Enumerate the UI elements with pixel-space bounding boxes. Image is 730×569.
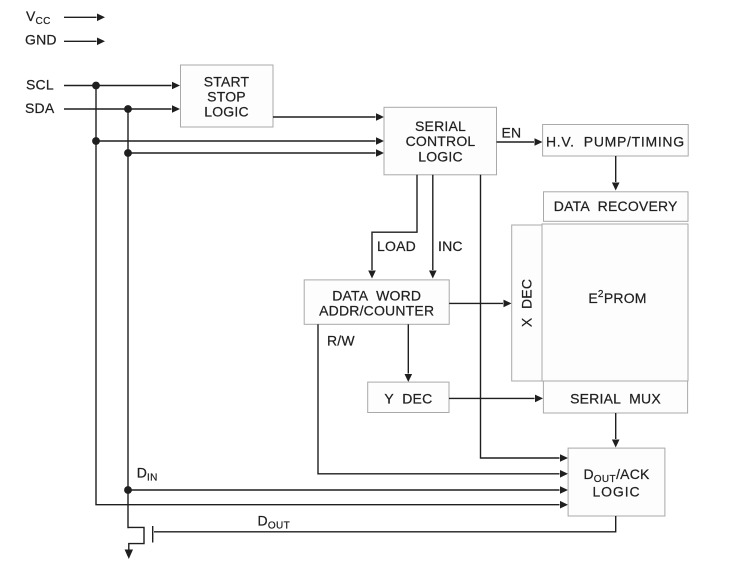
- svg-text:E2PROM: E2PROM: [588, 289, 646, 306]
- wire INC from SERIAL CONTROL LOGIC to DATA WORD ADDR/COUNTER: [429, 175, 437, 279]
- GND pin arrow: [64, 38, 105, 46]
- junction dot SCL branch: [92, 82, 100, 90]
- block Y DEC: [368, 382, 449, 412]
- wire SDA input to START STOP LOGIC: [64, 105, 180, 113]
- svg-text:LOGIC: LOGIC: [418, 148, 463, 164]
- svg-text:START: START: [204, 73, 250, 89]
- wire Y DEC to SERIAL MUX: [449, 395, 543, 403]
- svg-text:R/W: R/W: [327, 332, 355, 348]
- block HV PUMP TIMING: [543, 125, 689, 157]
- block E2PROM: [542, 224, 688, 381]
- svg-text:CONTROL: CONTROL: [406, 133, 476, 149]
- net label LOAD: [377, 238, 416, 254]
- wire SDA branch to SERIAL CONTROL LOGIC: [128, 149, 384, 157]
- svg-text:Y DEC: Y DEC: [384, 390, 432, 406]
- block SERIAL MUX: [543, 381, 687, 413]
- output pin arrow SDA open drain: [125, 550, 133, 560]
- block X DEC: [512, 225, 542, 381]
- wire DOUT from DOUT/ACK LOGIC to output transistor gate: [154, 516, 616, 532]
- svg-text:ADDR/COUNTER: ADDR/COUNTER: [319, 303, 434, 319]
- wire SCL vertical bus: [96, 86, 568, 509]
- wire SCL input to START STOP LOGIC: [64, 82, 180, 90]
- svg-text:SDA: SDA: [25, 100, 55, 116]
- net label INC: [438, 238, 463, 254]
- wire SDA vertical bus: [127, 109, 129, 528]
- svg-text:STOP: STOP: [207, 88, 246, 104]
- wire DATA WORD ADDR/COUNTER to X DEC: [449, 300, 511, 308]
- wire HV PUMP to DATA RECOVERY: [612, 156, 620, 191]
- junction dot SDA branch: [124, 105, 132, 113]
- svg-text:DATA RECOVERY: DATA RECOVERY: [554, 198, 678, 214]
- net label R/W: [327, 332, 355, 348]
- block DOUT/ACK LOGIC: [568, 448, 665, 516]
- net label VCC: [26, 8, 51, 27]
- svg-text:H.V. PUMP/TIMING: H.V. PUMP/TIMING: [546, 134, 685, 150]
- svg-text:LOGIC: LOGIC: [592, 484, 640, 500]
- transistor output MOSFET gate bar: [152, 526, 154, 543]
- wire SERIAL CONTROL LOGIC to DOUT/ACK LOGIC: [481, 175, 569, 462]
- wire LOAD from SERIAL CONTROL LOGIC to DATA WORD ADDR/COUNTER: [368, 175, 417, 279]
- block DATA WORD ADDR/COUNTER: [304, 280, 449, 324]
- wire SCL branch to SERIAL CONTROL LOGIC: [96, 137, 384, 145]
- junction dot SDA to serial control: [124, 149, 132, 157]
- VCC pin arrow: [64, 14, 105, 22]
- block SERIAL CONTROL LOGIC: [384, 107, 497, 175]
- net label EN: [502, 125, 522, 141]
- wire EN to HV PUMP: [497, 138, 543, 146]
- net label GND: [25, 32, 57, 48]
- net label SCL: [26, 77, 54, 93]
- svg-text:SERIAL MUX: SERIAL MUX: [570, 390, 661, 406]
- svg-text:SCL: SCL: [26, 77, 54, 93]
- svg-text:EN: EN: [502, 125, 522, 141]
- svg-text:DATA WORD: DATA WORD: [332, 287, 421, 303]
- wire SERIAL MUX to DOUT/ACK LOGIC: [612, 413, 620, 448]
- wire START STOP LOGIC to SERIAL CONTROL LOGIC: [273, 113, 384, 121]
- svg-text:LOGIC: LOGIC: [204, 104, 249, 120]
- block START STOP LOGIC: [181, 65, 274, 127]
- net label SDA: [25, 100, 55, 116]
- transistor output MOSFET channel and drain/source: [128, 527, 144, 550]
- wire DIN to DOUT/ACK LOGIC: [128, 486, 568, 494]
- wire DATA WORD ADDR/COUNTER to Y DEC: [405, 324, 413, 382]
- net label DIN: [137, 465, 158, 484]
- junction dot SCL to serial control: [92, 137, 100, 145]
- svg-text:INC: INC: [438, 238, 463, 254]
- block DATA RECOVERY: [544, 192, 689, 222]
- svg-text:LOAD: LOAD: [377, 238, 416, 254]
- svg-text:SERIAL: SERIAL: [415, 118, 466, 134]
- svg-text:GND: GND: [25, 32, 57, 48]
- svg-text:X DEC: X DEC: [519, 279, 535, 327]
- wire R/W from DATA WORD ADDR/COUNTER to DOUT/ACK LOGIC: [318, 324, 568, 477]
- net label DOUT: [258, 513, 291, 532]
- junction dot DIN: [124, 486, 132, 494]
